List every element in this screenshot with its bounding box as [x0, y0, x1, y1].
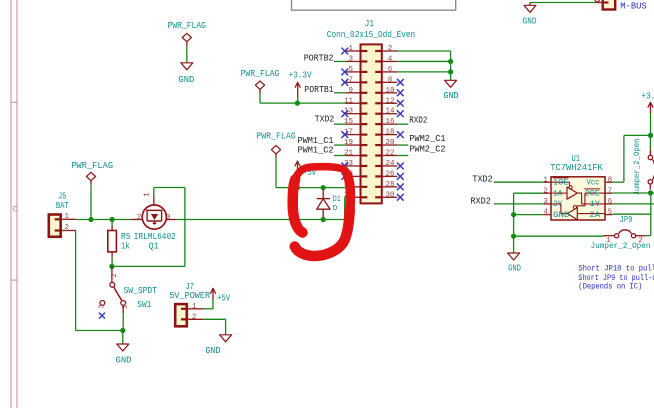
- svg-text:TXD2: TXD2: [315, 115, 335, 125]
- svg-text:18: 18: [385, 129, 394, 137]
- svg-text:5: 5: [608, 209, 612, 217]
- svg-text:8: 8: [608, 176, 612, 184]
- svg-text:28: 28: [385, 181, 394, 189]
- svg-text:(Depends on IC): (Depends on IC): [578, 282, 642, 291]
- svg-text:+3.3V: +3.3V: [642, 91, 654, 101]
- svg-text:2: 2: [111, 273, 119, 277]
- svg-text:GND: GND: [553, 211, 570, 220]
- svg-text:GND: GND: [508, 264, 521, 274]
- svg-text:7: 7: [348, 76, 353, 84]
- svg-text:Vcc: Vcc: [587, 179, 600, 188]
- svg-text:2A: 2A: [590, 211, 601, 220]
- svg-text:5V_POWER: 5V_POWER: [169, 291, 210, 301]
- svg-text:16: 16: [385, 118, 395, 126]
- svg-text:BAT: BAT: [56, 201, 69, 211]
- svg-text:GND: GND: [444, 91, 459, 101]
- svg-text:2Y: 2Y: [553, 200, 563, 209]
- svg-text:RXD2: RXD2: [471, 196, 491, 206]
- svg-text:PWM2_C1: PWM2_C1: [409, 134, 445, 144]
- svg-text:PORTB2: PORTB2: [304, 54, 334, 64]
- svg-text:SW_SPDT: SW_SPDT: [124, 286, 158, 296]
- svg-text:PWR_FLAG: PWR_FLAG: [241, 69, 280, 79]
- svg-text:2OE: 2OE: [585, 190, 601, 199]
- svg-text:30: 30: [385, 191, 395, 199]
- svg-text:4: 4: [388, 55, 393, 63]
- svg-text:GND: GND: [116, 356, 132, 366]
- svg-text:Conn_02x15_Odd_Even: Conn_02x15_Odd_Even: [327, 30, 415, 40]
- svg-text:10: 10: [385, 87, 395, 95]
- svg-text:19: 19: [344, 139, 353, 147]
- svg-text:TXD2: TXD2: [472, 175, 492, 185]
- svg-text:1: 1: [543, 176, 548, 184]
- svg-text:+3.3V: +3.3V: [289, 71, 313, 81]
- svg-text:PWM1_C1: PWM1_C1: [298, 136, 334, 146]
- svg-text:6: 6: [388, 66, 393, 74]
- svg-text:2: 2: [192, 313, 197, 321]
- svg-text:PWM2_C2: PWM2_C2: [409, 145, 445, 155]
- svg-text:2: 2: [64, 224, 69, 232]
- svg-text:Jumper_2_Open: Jumper_2_Open: [591, 242, 651, 251]
- svg-text:6: 6: [608, 198, 612, 206]
- svg-text:14: 14: [385, 108, 395, 116]
- svg-text:GND: GND: [206, 346, 221, 356]
- svg-text:Jumper_2_Open: Jumper_2_Open: [633, 138, 642, 195]
- svg-text:1OE: 1OE: [553, 179, 569, 188]
- svg-text:4: 4: [543, 209, 548, 217]
- svg-text:Q1: Q1: [149, 241, 159, 251]
- svg-text:8: 8: [388, 76, 393, 84]
- svg-text:Short JP10 to pull-: Short JP10 to pull-: [578, 265, 654, 274]
- svg-text:20: 20: [385, 139, 395, 147]
- svg-text:PWM1_C2: PWM1_C2: [298, 145, 334, 155]
- svg-text:1Y: 1Y: [590, 200, 601, 209]
- svg-text:JP9: JP9: [620, 215, 633, 225]
- svg-text:11: 11: [344, 97, 354, 105]
- svg-text:1: 1: [64, 213, 69, 221]
- svg-text:12: 12: [385, 97, 394, 105]
- svg-text:PWR_FLAG: PWR_FLAG: [256, 132, 295, 142]
- svg-text:3: 3: [99, 304, 107, 308]
- svg-text:1k: 1k: [121, 241, 130, 251]
- svg-text:D1: D1: [333, 196, 341, 204]
- svg-text:PWR_FLAG: PWR_FLAG: [71, 161, 113, 171]
- svg-text:1: 1: [144, 192, 152, 197]
- svg-text:D: D: [333, 205, 338, 213]
- svg-text:1A: 1A: [553, 190, 563, 199]
- svg-text:22: 22: [385, 150, 394, 158]
- svg-text:RXD2: RXD2: [409, 115, 427, 125]
- svg-text:c: c: [12, 205, 18, 216]
- svg-text:21: 21: [344, 150, 354, 158]
- svg-text:2: 2: [137, 214, 142, 222]
- svg-text:24: 24: [385, 160, 395, 168]
- svg-text:M-BUS: M-BUS: [620, 2, 646, 12]
- svg-text:PORTB1: PORTB1: [304, 85, 333, 95]
- svg-text:9: 9: [348, 87, 353, 95]
- svg-text:5: 5: [348, 66, 353, 74]
- svg-text:3: 3: [543, 198, 548, 206]
- svg-text:3: 3: [348, 55, 353, 63]
- svg-text:J1: J1: [365, 19, 374, 29]
- svg-text:GND: GND: [523, 16, 537, 26]
- svg-text:TC7WH241FK: TC7WH241FK: [550, 163, 603, 173]
- svg-text:3: 3: [166, 214, 170, 222]
- svg-text:1: 1: [348, 45, 353, 53]
- svg-text:7: 7: [608, 187, 612, 195]
- svg-text:15: 15: [344, 118, 354, 126]
- svg-text:PWR_FLAG: PWR_FLAG: [168, 21, 206, 31]
- svg-text:SW1: SW1: [137, 300, 152, 310]
- svg-text:2: 2: [388, 45, 393, 53]
- svg-text:+5V: +5V: [217, 293, 231, 303]
- svg-text:GND: GND: [178, 75, 194, 85]
- svg-text:1: 1: [192, 303, 197, 311]
- svg-text:2: 2: [543, 187, 548, 195]
- svg-text:26: 26: [385, 170, 395, 178]
